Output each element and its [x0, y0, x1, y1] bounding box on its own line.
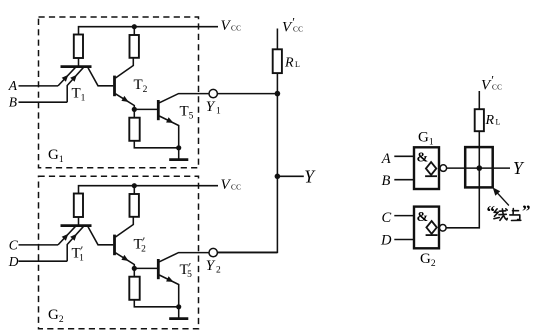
- arrow to wired-AND box: [493, 187, 509, 205]
- svg-text:D: D: [380, 232, 392, 248]
- svg-text:A: A: [8, 78, 18, 93]
- gate G2 symbol box: [414, 207, 439, 249]
- node Y junction: [275, 174, 281, 180]
- svg-text:L: L: [295, 60, 300, 69]
- wired-AND junction box: [465, 147, 493, 187]
- gate G2 open-collector diamond: [426, 221, 438, 235]
- svg-text:CC: CC: [293, 26, 303, 34]
- svg-text:A: A: [381, 151, 391, 167]
- wire through junction box vertical: [478, 147, 480, 187]
- svg-text:D: D: [8, 254, 19, 269]
- svg-text:G2: G2: [48, 307, 64, 325]
- svg-text:&: &: [417, 210, 429, 225]
- svg-text:CC: CC: [231, 24, 241, 32]
- svg-text:L: L: [496, 118, 501, 127]
- label 与 glyph (hand drawn): [510, 209, 521, 221]
- wire V'cc stem: [276, 29, 278, 50]
- svg-text:Y: Y: [206, 99, 216, 115]
- svg-text:T′1: T′1: [72, 243, 85, 264]
- svg-text:Y: Y: [206, 258, 216, 274]
- wire input A: [394, 155, 414, 157]
- svg-text:B: B: [9, 95, 17, 110]
- gate G2 output bubble: [440, 225, 447, 232]
- dashed box G2: [39, 176, 199, 328]
- svg-text:B: B: [382, 173, 391, 189]
- node wired-AND junction: [477, 165, 483, 171]
- svg-text:1: 1: [216, 107, 221, 117]
- svg-text:V: V: [221, 18, 232, 34]
- svg-text:G1: G1: [48, 147, 64, 165]
- svg-text:”: ”: [522, 202, 531, 221]
- wire through junction box horizontal to Y: [465, 167, 510, 169]
- svg-text:C: C: [382, 210, 392, 226]
- svg-text:Y: Y: [304, 167, 316, 187]
- svg-text:T′5: T′5: [180, 260, 193, 281]
- wire input D: [394, 239, 414, 241]
- wire input C: [394, 215, 414, 217]
- wire bus vertical: [218, 73, 278, 252]
- svg-text:R: R: [284, 56, 294, 71]
- svg-text:T2: T2: [134, 77, 148, 95]
- gate G1 output bubble: [440, 165, 447, 172]
- wire RL to junction box: [478, 131, 480, 147]
- wire G1 output: [447, 167, 466, 169]
- dashed box G1: [39, 17, 199, 168]
- svg-text:G1: G1: [418, 130, 434, 148]
- label 线 glyph (hand drawn): [494, 209, 507, 221]
- svg-text:G2: G2: [420, 251, 436, 269]
- resistor RL (right): [475, 109, 484, 131]
- svg-text:CC: CC: [492, 84, 502, 92]
- wire V'cc stem (right): [478, 91, 480, 109]
- gate G1 open-collector diamond: [425, 162, 437, 176]
- svg-text:2: 2: [216, 266, 221, 276]
- svg-text:T5: T5: [180, 104, 194, 122]
- node Y1 junction: [275, 91, 281, 97]
- resistor RL: [273, 49, 282, 73]
- svg-text:T1: T1: [72, 86, 86, 104]
- svg-text:V: V: [221, 177, 232, 193]
- svg-text:&: &: [417, 151, 429, 166]
- gate G1 symbol box: [414, 147, 439, 189]
- svg-text:Y: Y: [513, 158, 525, 178]
- svg-text:T′2: T′2: [134, 234, 147, 255]
- svg-text:R: R: [485, 113, 495, 128]
- svg-text:CC: CC: [231, 183, 241, 191]
- wire output Y: [277, 175, 303, 177]
- wire input B: [394, 179, 414, 181]
- wire G2 output: [446, 187, 479, 227]
- svg-text:C: C: [9, 238, 19, 253]
